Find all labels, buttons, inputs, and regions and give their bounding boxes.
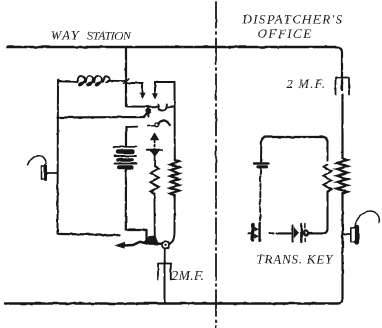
resistor R3 (zigzag, dispatcher) [323, 164, 331, 191]
resistance coil R2 (tight winding, way station) [174, 82, 176, 160]
battery B1 (way station) [114, 127, 137, 230]
junction node dot [146, 108, 152, 114]
wire key bottom (right) [310, 232, 323, 234]
wire line to key (left) [60, 234, 120, 236]
switch contact hanger n2 [155, 82, 175, 93]
hook switch contact [159, 120, 170, 125]
wire junction stub [147, 107, 149, 117]
wire cross horizontal to left vertical [58, 114, 148, 118]
switch contact hanger n1 [127, 83, 143, 93]
wire receiver tap (dispatcher) [343, 233, 351, 235]
wire loop left leg upper [260, 142, 262, 162]
junction kink [123, 78, 129, 83]
svg-text:OFFICE: OFFICE [258, 26, 313, 41]
telephone receiver (way station) [28, 155, 58, 180]
contact arrow tip n2 [153, 93, 158, 98]
wire pivot down to condenser [164, 249, 166, 263]
wire switch feed horizontal [126, 106, 158, 107]
telegraph key lever [116, 243, 125, 249]
wire receiver connector [47, 172, 58, 174]
wire battery feed (dashed) [127, 126, 138, 128]
inductor relay coil (way station) [58, 76, 126, 85]
receiver cord (way station) [28, 155, 47, 165]
inductor main-line choke coil (right) [337, 158, 348, 194]
wire bottom telegraph line [5, 302, 337, 304]
telephone receiver (dispatcher) [351, 211, 380, 243]
wire coil to pivot [169, 196, 174, 244]
wire battery to key contact [126, 230, 147, 240]
capacitor C1 2 M.F. (dispatcher line condenser) [336, 77, 350, 96]
contact point circle [155, 123, 159, 127]
wire way-station drop from line [125, 47, 127, 106]
receiver cord (dispatcher) [355, 211, 379, 226]
transmitter key contacts [293, 224, 310, 243]
contact arrow tip n1 [140, 93, 145, 98]
svg-text:2 M.F.: 2 M.F. [287, 77, 327, 91]
wire right vertical lower [337, 193, 343, 304]
contact seat (cup) [158, 105, 174, 111]
wire right main vertical (line to bottom) [336, 47, 342, 77]
wire loop left leg lower [259, 169, 262, 224]
wire top telegraph line [7, 46, 336, 49]
svg-text:TRANS. KEY: TRANS. KEY [257, 252, 335, 267]
wire loop bottom-right corner [323, 192, 328, 234]
svg-text:DISPATCHER'S: DISPATCHER'S [242, 12, 344, 27]
wire key bottom (left) [270, 232, 292, 234]
battery B2 (dispatcher) [254, 162, 268, 164]
capacitor C2 2 M.F. (way station) [158, 264, 171, 304]
resistor R1 (zigzag, way station) [150, 166, 158, 194]
boundary dash-dot divider [215, 2, 217, 328]
svg-text:WAY: WAY [51, 28, 81, 43]
key pivot [162, 241, 169, 248]
wire left vertical (way station) [58, 80, 61, 234]
wire right vertical middle [341, 95, 343, 158]
wire corner left top [57, 80, 59, 81]
key contact anvil (filled) [144, 236, 158, 242]
wire coil entry from left vertical [58, 80, 78, 83]
svg-text:2M.F.: 2M.F. [172, 268, 205, 283]
wire resistor to key contact [153, 194, 155, 237]
wire loop right leg upper [327, 142, 329, 160]
dispatcher local loop top [262, 137, 328, 142]
lightning arrester (way station) [147, 133, 162, 166]
key jack plug [249, 224, 260, 242]
svg-text:STATION: STATION [87, 29, 132, 43]
